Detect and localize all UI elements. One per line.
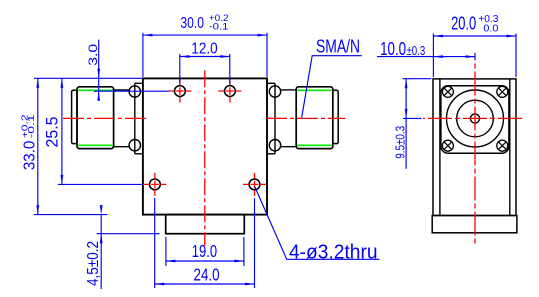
svg-text:25.5: 25.5 (44, 117, 62, 148)
dim text 33.0 rotated (21, 141, 38, 170)
left connector green flat bottom (78, 144, 112, 146)
left connector neck top edge (114, 89, 130, 91)
hole 2 crosshair (218, 80, 241, 103)
right connector green flat bottom (297, 144, 331, 146)
extension line 24 left (154, 198, 156, 288)
callout text 4-diam3.2 thru (289, 241, 378, 263)
right connector flange plate (267, 83, 275, 154)
svg-text:3.0: 3.0 (86, 43, 100, 65)
dim text 24.0 (194, 264, 220, 284)
svg-text:24.0: 24.0 (194, 264, 220, 284)
left connector bead arc bottom (129, 140, 140, 151)
leader SMA/N (302, 56, 362, 118)
extension line 24 right (254, 198, 256, 288)
front view bottom boss (166, 215, 245, 234)
dim text 4.5 rotated (85, 241, 102, 286)
right connector bead arc bottom (269, 140, 280, 151)
leader 4-hole callout (255, 187, 380, 260)
flange screw 1 (442, 86, 453, 97)
extension line end view top-left (403, 78, 432, 80)
flange screw 2 (497, 86, 508, 97)
dim text 30.0 tolerance (209, 13, 229, 32)
dimension 10.0 line (377, 55, 475, 58)
end view outer outline (433, 79, 516, 216)
left connector bead arc top (129, 86, 140, 97)
right connector green flat top (297, 89, 331, 91)
svg-text:0.0: 0.0 (483, 24, 498, 35)
dimension 25.5 line (61, 78, 64, 184)
left connector nut body (77, 87, 114, 149)
left connector neck bottom edge (114, 146, 130, 148)
hole 1 crosshair (168, 80, 191, 103)
right connector nut body (296, 87, 333, 149)
dim text 25.5 rotated (44, 117, 62, 148)
dimension 3.0 line (97, 40, 100, 101)
label SMA/N (316, 35, 360, 56)
left connector coupling cap (72, 90, 77, 143)
svg-text:9.5±0.3: 9.5±0.3 (392, 126, 407, 159)
svg-text:30.0: 30.0 (180, 15, 204, 32)
svg-text:4-ø3.2thru: 4-ø3.2thru (289, 241, 378, 263)
dimension 19.0 line (166, 260, 244, 263)
right connector neck bottom edge (280, 146, 296, 148)
extension line body top (34, 77, 142, 79)
mounting hole top-right (225, 86, 236, 97)
svg-text:19.0: 19.0 (192, 241, 217, 261)
end view inner edge right (509, 79, 511, 216)
hole 4 crosshair (243, 173, 266, 196)
end view inner edge left (439, 79, 441, 216)
front view horizontal centerline (63, 117, 346, 119)
dimension 33.0 line (36, 78, 39, 214)
svg-text:10.0: 10.0 (380, 38, 406, 59)
front view vertical centerline (204, 70, 206, 246)
hole 3 crosshair (143, 173, 166, 196)
right connector bead arc top (269, 86, 280, 97)
mounting hole bottom-right (249, 179, 260, 190)
connector middle circle (457, 100, 494, 137)
extension line 19 left (165, 237, 167, 266)
svg-text:-0.1: -0.1 (27, 113, 36, 138)
svg-text:±0.3: ±0.3 (407, 43, 426, 58)
dimension 4.5 line (100, 205, 103, 289)
end view bottom boss band (432, 216, 517, 233)
connector center pin circle (470, 114, 479, 123)
dimension 20.0 line (433, 35, 516, 38)
svg-text:20.0: 20.0 (451, 13, 476, 34)
dim text 3.0 rotated (86, 43, 100, 65)
extension line bottom hole row (58, 183, 143, 185)
left connector green flat top (78, 89, 112, 91)
dim text 12.0 (191, 40, 217, 57)
extension line end view axis (403, 117, 422, 119)
dim text 20.0 (451, 13, 476, 34)
flange screw 4 (497, 140, 508, 151)
svg-text:-0.1: -0.1 (209, 22, 229, 33)
end view horizontal centerline (423, 117, 525, 119)
mounting hole top-left (175, 86, 186, 97)
dimension 12.0 line (180, 55, 230, 58)
right connector coupling cap (333, 90, 338, 143)
extension tick 10 right (474, 53, 476, 60)
extension line 12 left (179, 54, 181, 84)
right connector neck top edge (280, 89, 296, 91)
dim text 9.5 rotated (392, 126, 407, 159)
connector outer circle (447, 90, 504, 147)
extension line 19 right (243, 237, 245, 266)
mounting hole bottom-left (150, 179, 161, 190)
N flange square (441, 86, 509, 153)
svg-text:4,5±0.2: 4,5±0.2 (85, 241, 102, 286)
dim text 19.0 (192, 241, 217, 261)
left connector flange plate (135, 83, 143, 154)
front view body outline (143, 78, 267, 214)
svg-text:33.0: 33.0 (21, 141, 38, 170)
dim text 10.0±0.3 (380, 38, 425, 59)
dim text 20.0 tolerance (478, 14, 498, 34)
flange screw 3 (442, 140, 453, 151)
extension line 30 left (142, 33, 144, 77)
extension line 20 right (515, 34, 517, 78)
dimension 30.0 line (143, 34, 267, 37)
extension line 20 left (432, 34, 434, 78)
dim text 30.0 (180, 15, 204, 32)
svg-text:SMA/N: SMA/N (316, 35, 360, 56)
extension line 30 right (266, 33, 268, 77)
dim text 33.0 tolerance rotated (21, 113, 37, 138)
extension line body bottom (34, 214, 107, 216)
dimension 9.5 line (405, 79, 408, 169)
extension line 12 right (229, 54, 231, 84)
svg-text:12.0: 12.0 (191, 40, 217, 57)
dimension 24.0 line (155, 283, 255, 286)
extension line hole row top (94, 90, 169, 92)
extension line boss bottom (97, 233, 160, 235)
end view vertical centerline (474, 60, 476, 245)
